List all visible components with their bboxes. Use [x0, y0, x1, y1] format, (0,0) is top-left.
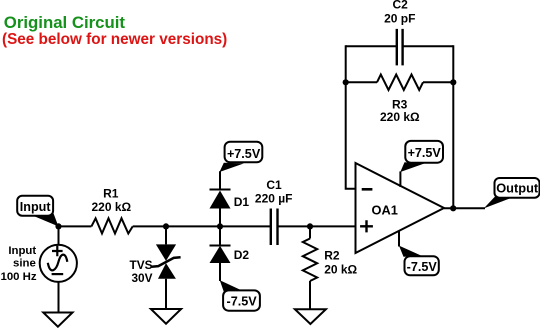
ground (under R2)	[295, 309, 326, 324]
svg-text:C2: C2	[393, 0, 409, 12]
flag -7.5V (D2)	[220, 280, 244, 292]
flag -7.5V (op-amp)	[399, 246, 423, 257]
node diode junction	[217, 223, 223, 229]
flag Output	[484, 196, 514, 208]
wire R3 row	[346, 81, 454, 83]
resistor R3	[377, 75, 423, 91]
wire main rail right (C1 to op-amp + input)	[278, 225, 356, 227]
wire diode branch up	[219, 171, 221, 226]
wire feedback right vertical	[452, 45, 454, 208]
wire R2 branch	[309, 226, 311, 309]
node R3 left junction	[343, 79, 349, 85]
svg-text:R2: R2	[324, 249, 340, 263]
svg-text:-7.5V: -7.5V	[407, 260, 438, 274]
flag Input	[31, 211, 58, 227]
svg-text:Output: Output	[496, 181, 539, 196]
resistor R1	[91, 218, 132, 233]
svg-text:+7.5V: +7.5V	[227, 147, 261, 161]
resistor R2	[303, 239, 317, 282]
svg-text:TVS: TVS	[130, 258, 153, 272]
wire main rail left (input junction to C1)	[59, 225, 271, 227]
ground (under TVS)	[151, 309, 181, 324]
svg-text:220 kΩ: 220 kΩ	[380, 110, 420, 124]
svg-text:100 Hz: 100 Hz	[1, 271, 37, 283]
svg-text:sine: sine	[13, 258, 36, 270]
svg-text:+7.5V: +7.5V	[408, 146, 442, 160]
wire top rail (C2)	[346, 45, 454, 47]
svg-text:220 kΩ: 220 kΩ	[91, 200, 131, 214]
svg-text:Original Circuit: Original Circuit	[4, 13, 126, 32]
svg-text:R1: R1	[103, 187, 119, 201]
svg-text:(See below for newer versions): (See below for newer versions)	[2, 31, 227, 48]
wire op-amp +V stub	[399, 171, 401, 187]
svg-text:Input: Input	[8, 245, 36, 257]
op-amp OA1	[356, 163, 445, 253]
svg-text:220 µF: 220 µF	[255, 192, 293, 206]
node TVS junction	[163, 223, 169, 229]
source V1 input sine	[40, 245, 77, 282]
wire feedback left vertical + minus input	[346, 45, 356, 189]
svg-text:Input: Input	[20, 200, 52, 214]
wire output	[444, 207, 485, 209]
svg-text:-7.5V: -7.5V	[227, 295, 258, 309]
wire input source branch	[58, 226, 60, 312]
svg-text:D1: D1	[234, 195, 250, 209]
svg-text:OA1: OA1	[372, 202, 398, 217]
svg-text:C1: C1	[266, 178, 282, 192]
node R3 right junction	[450, 79, 456, 85]
wire op-amp -V stub	[398, 231, 400, 247]
node input junction	[55, 223, 61, 229]
TVS bidirectional zener	[156, 244, 176, 261]
node R2 junction	[307, 223, 313, 229]
wire TVS branch	[165, 226, 167, 309]
svg-text:20 kΩ: 20 kΩ	[324, 263, 357, 277]
flag +7.5V (D1)	[220, 163, 245, 172]
ground (under source)	[43, 313, 72, 327]
capacitor C1	[271, 209, 278, 246]
flag +7.5V (op-amp)	[400, 162, 425, 172]
wire diode branch down	[219, 226, 221, 281]
diode D1	[210, 191, 231, 209]
svg-text:D2: D2	[234, 248, 250, 262]
svg-text:20 pF: 20 pF	[384, 12, 415, 26]
node output junction	[450, 205, 456, 211]
svg-text:30V: 30V	[132, 271, 153, 285]
capacitor C2	[397, 29, 403, 66]
diode D2	[210, 246, 231, 263]
